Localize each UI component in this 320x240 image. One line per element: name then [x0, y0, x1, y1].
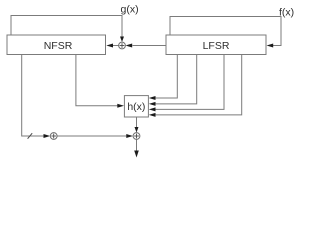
svg-text:g(x): g(x): [121, 3, 139, 15]
svg-text:NFSR: NFSR: [44, 40, 73, 52]
svg-text:h(x): h(x): [127, 101, 145, 113]
svg-text:f(x): f(x): [279, 6, 294, 18]
svg-text:LFSR: LFSR: [203, 40, 230, 52]
